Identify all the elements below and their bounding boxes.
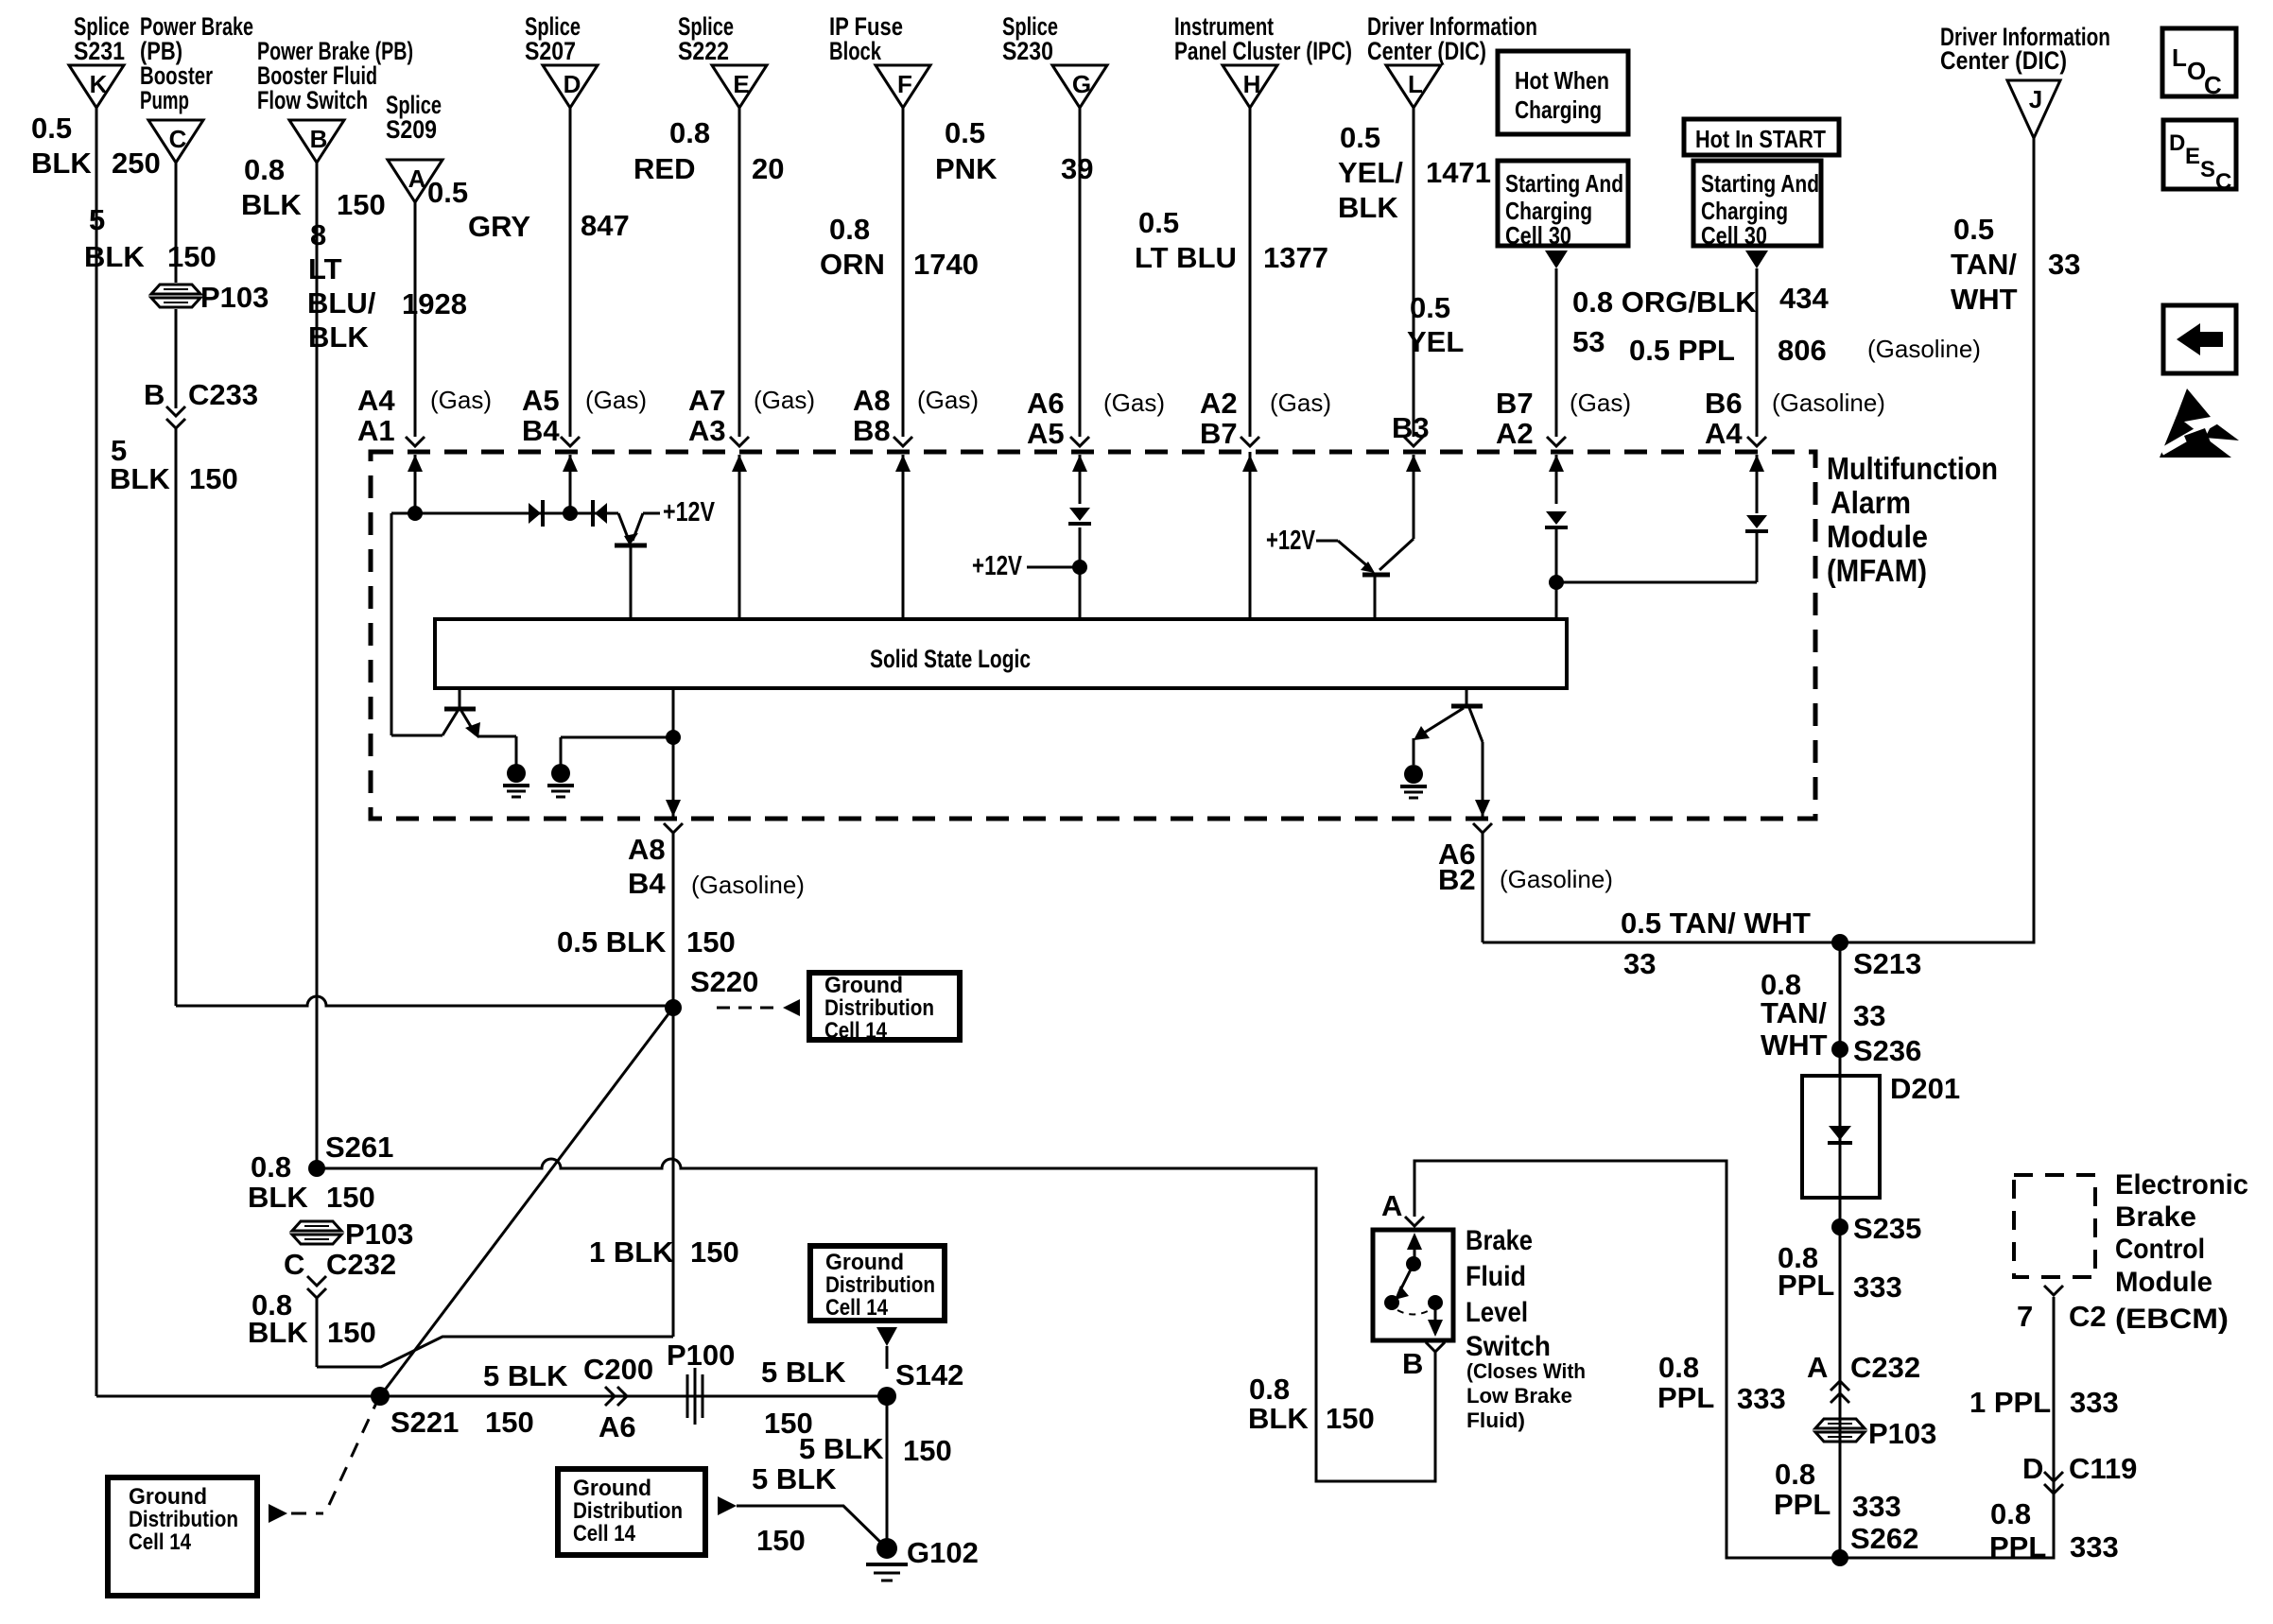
svg-text:150: 150 [1326,1402,1375,1435]
svg-text:TAN/: TAN/ [1761,996,1827,1029]
Solid State Logic label [870,645,1031,673]
transistor Q1 base lead [630,546,633,619]
Ground Distribution Cell 14 box (G102) [558,1469,705,1555]
transistor Q4 collector lead [1469,708,1483,742]
svg-text:BLK: BLK [1248,1402,1309,1435]
switch contact dot left [1384,1295,1399,1310]
svg-text:(Gasoline): (Gasoline) [1772,389,1885,417]
svg-text:5 BLK: 5 BLK [752,1462,837,1495]
svg-text:A6: A6 [599,1410,636,1443]
svg-text:(Gasoline): (Gasoline) [1500,865,1613,893]
svg-text:Fluid): Fluid) [1466,1408,1525,1432]
diode D201 symbol [1828,1126,1852,1143]
svg-text:150: 150 [686,925,736,959]
svg-text:0.8: 0.8 [244,153,285,186]
svg-text:Ground: Ground [573,1476,651,1501]
svg-text:LT BLU: LT BLU [1135,241,1237,274]
wire 0.5 YEL 53 [1555,268,1558,437]
switch dashed travel arc [1397,1310,1430,1315]
svg-text:C232: C232 [326,1248,396,1281]
svg-text:150: 150 [690,1235,739,1269]
label (Gasoline) A6/B2 [1500,865,1613,893]
svg-text:Center (DIC): Center (DIC) [1367,37,1486,65]
svg-text:A4: A4 [357,384,395,417]
splice S220 [665,999,682,1016]
label (Closes With Low Brake Fluid) [1466,1359,1586,1432]
svg-text:Center (DIC): Center (DIC) [1940,46,2067,75]
diode CR3 on wire G [1068,508,1091,524]
svg-text:BLK: BLK [248,1316,308,1349]
svg-text:5 BLK: 5 BLK [483,1359,568,1392]
label Electronic Brake Control Module (EBCM) [2115,1169,2248,1335]
transistor Q2 collector lead [1379,539,1414,570]
diode CR2 (pointing left) [593,500,607,527]
svg-text:0.5 BLK: 0.5 BLK [557,925,667,959]
transistor Q1 emitter arrow [618,513,643,545]
svg-text:7: 7 [2017,1300,2033,1333]
reference arrow out of G102 box [718,1496,737,1515]
svg-text:Brake: Brake [1466,1225,1533,1256]
label 0.8 BLK 150 (wire B) [241,153,386,221]
svg-text:150: 150 [167,240,217,273]
svg-text:Brake: Brake [2115,1201,2196,1233]
transistor Q3 collector lead [442,711,458,735]
+12V feed to wire G [972,551,1080,581]
switch arm diagonal [1395,1264,1414,1300]
svg-text:PNK: PNK [935,152,998,185]
svg-text:Switch: Switch [1466,1331,1551,1362]
label (Gasoline) A8/B4 [691,871,805,899]
wire Q3 emitter to ground [477,736,516,765]
svg-text:PPL: PPL [1774,1488,1831,1521]
wire C 5 BLK 150 upper [175,163,178,283]
svg-text:250: 250 [112,147,161,180]
wire logic output A8 [672,688,675,802]
transistor Q3 base lead [459,688,461,707]
label 0.5 PPL 806 [1629,334,1827,367]
module pin chevron at x=1142 [1070,437,1089,446]
svg-text:150: 150 [189,462,238,495]
svg-text:S236: S236 [1853,1034,1921,1067]
svg-text:B8: B8 [853,414,891,447]
svg-text:1471: 1471 [1426,156,1491,189]
svg-text:(Gas): (Gas) [1570,389,1631,417]
svg-text:B3: B3 [1392,411,1430,444]
label 1 PPL 333 [1969,1386,2119,1419]
label 0.8 PPL 333 (below C119) [1989,1497,2119,1564]
svg-text:B: B [1402,1347,1423,1380]
internal wire left drop [391,513,442,735]
svg-text:Level: Level [1466,1297,1528,1328]
label 0.8 BLK 150 (below S261) [248,1150,375,1214]
svg-text:B: B [310,125,328,153]
svg-text:150: 150 [326,1181,375,1214]
Hot In START box [1684,119,1839,155]
svg-text:B7: B7 [1200,417,1238,450]
Brake Fluid Level Switch box [1373,1230,1453,1340]
internal input arrow at x=782 [732,455,747,619]
svg-text:PPL: PPL [1989,1530,2046,1564]
label D201 [1890,1072,1960,1105]
label S262 [1850,1522,1918,1555]
svg-text:Distribution: Distribution [129,1507,238,1532]
svg-text:S262: S262 [1850,1522,1918,1555]
pin A8/B4 [628,833,666,900]
connector triangle L (Driver Information Center) [1367,12,1537,108]
label 0.8 RED 20 [633,116,784,185]
wire 5 BLK 150 from ground distribution [737,1506,887,1548]
svg-text:1 PPL: 1 PPL [1969,1386,2051,1419]
wire A 8 LT BLU/BLK 1928 [414,200,417,437]
svg-text:(MFAM): (MFAM) [1827,553,1927,588]
svg-text:5 BLK: 5 BLK [799,1432,884,1465]
label 0.5 GRY 847 [427,176,630,243]
svg-text:8: 8 [310,218,326,251]
svg-text:A5: A5 [1027,417,1065,450]
svg-text:+12V: +12V [663,497,716,527]
switch contact arm A [1407,1233,1422,1264]
module pin chevron at x=603 [561,437,580,446]
svg-text:C119: C119 [2069,1452,2137,1485]
svg-text:P103: P103 [200,281,269,314]
connector C232 pin C [284,1248,396,1298]
wire 0.8 ORG/BLK 434 [1756,268,1759,437]
svg-text:L: L [1408,70,1423,98]
svg-text:E: E [733,70,749,98]
svg-text:B4: B4 [522,414,560,447]
wire C 5 BLK 150 lower [175,428,178,1006]
wire brake switch pin A loop [1414,1161,2054,1558]
wire ground G2 to output [561,737,673,765]
svg-text:P100: P100 [667,1339,735,1372]
pin A6/A5 [1027,387,1065,450]
label G102 [907,1536,979,1569]
connector triangle F (IP Fuse Block) [829,12,930,108]
wire A8/B4 0.5 BLK 150 to S220 [672,833,675,1008]
svg-text:0.5: 0.5 [945,116,985,149]
label (Gasoline) wire 806 [1867,335,1981,363]
svg-text:0.5: 0.5 [1340,121,1380,154]
splice S261 [308,1160,325,1177]
svg-text:150: 150 [337,188,386,221]
label 5 BLK 150 (to G102) [752,1462,837,1557]
internal wire B7 to B6 [1556,581,1757,584]
svg-text:1377: 1377 [1263,241,1328,274]
connector triangle G (Splice S230) [1002,12,1107,108]
wire E 0.8 RED 20 [738,108,741,437]
label 0.5 YEL/BLK 1471 [1338,121,1491,224]
svg-text:PPL: PPL [1657,1381,1714,1414]
wire D 0.5 GRY 847 [569,108,572,437]
label 0.8 PPL 333 (below P103) [1774,1458,1901,1523]
wire B jog to 1 BLK wire [317,1337,673,1367]
wire L 0.5 YEL/BLK 1471 [1413,108,1415,437]
splice S142 [877,1387,896,1406]
ground rail 5 BLK 150 [96,1395,887,1398]
Hot When Charging box [1498,51,1628,134]
svg-text:S230: S230 [1002,37,1053,65]
svg-text:(Gas): (Gas) [754,386,815,414]
svg-text:Cell 14: Cell 14 [824,1018,888,1044]
label 1 BLK 150 [589,1235,739,1269]
label (Gas) A5 [585,386,647,414]
svg-text:A1: A1 [357,414,395,447]
ground G3 (internal) [1400,765,1427,798]
module pin chevron at x=955 [894,437,912,446]
pin B chevron (switch) [1402,1342,1445,1380]
connector triangle A (Splice S209) [386,91,442,202]
svg-text:333: 333 [2070,1386,2119,1419]
svg-text:5 BLK: 5 BLK [761,1356,846,1389]
wire 1 PPL 333 (EBCM) [2053,1297,2056,1475]
svg-text:Electronic: Electronic [2115,1169,2248,1201]
svg-text:BLK: BLK [308,320,369,354]
switch contact arm B [1428,1303,1443,1337]
svg-text:33: 33 [2048,248,2080,281]
splice S213 [1831,934,1848,951]
internal input arrow at x=603 [563,455,578,513]
splice S235 [1831,1218,1848,1235]
module pin chevron at x=439 [406,437,425,446]
MFAM name label [1827,451,1998,588]
svg-text:1928: 1928 [402,287,467,320]
ESD susceptibility symbol [2160,389,2239,458]
module pin chevron A8/B4 [664,823,683,833]
power feed arrow into wire 53 [1545,251,1568,268]
label S220 [690,965,758,998]
label Brake Fluid Level Switch [1466,1225,1551,1362]
svg-text:D201: D201 [1890,1072,1960,1105]
svg-text:K: K [90,70,108,98]
transistor Q4 emitter arrow [1414,708,1464,740]
svg-text:C232: C232 [1850,1351,1920,1384]
ground G102 [866,1538,908,1581]
pin A2/B7 [1200,387,1238,450]
connector C119 pin D [2022,1452,2137,1494]
node B7 junction [1549,575,1564,590]
transistor Q4 base bar [1451,704,1483,709]
switch contact dot right [1428,1295,1443,1310]
svg-text:(Gas): (Gas) [917,386,979,414]
svg-text:5: 5 [89,203,105,236]
Multifunction Alarm Module dashed outline [371,452,1815,819]
svg-text:YEL: YEL [1407,325,1464,358]
wire 0.8 TAN/WHT 33 [1839,942,1842,1556]
diagonal wire S220 to S221 [380,1008,673,1396]
label 0.8 ORG/BLK 434 [1572,282,1829,319]
svg-text:C: C [169,125,187,153]
svg-text:0.5 TAN/ WHT: 0.5 TAN/ WHT [1621,907,1811,940]
svg-text:S209: S209 [386,115,437,144]
svg-text:(EBCM): (EBCM) [2115,1304,2229,1335]
dashed reference to S221 [291,1401,377,1513]
ground G2 (internal) [547,764,574,797]
module pin chevron at x=1322 [1241,437,1259,446]
svg-text:0.8: 0.8 [1775,1458,1815,1491]
svg-text:A6: A6 [1027,387,1065,420]
internal input arrow at x=1495 [1406,455,1421,539]
connector C233 pin B [144,378,258,428]
wire B below C232 [316,1298,319,1367]
svg-text:G102: G102 [907,1536,979,1569]
svg-text:150: 150 [327,1316,376,1349]
svg-text:S222: S222 [678,37,729,65]
label (Gas) A6 [1103,389,1165,417]
transistor Q4 base lead [1466,688,1468,704]
svg-text:Pump: Pump [140,86,189,114]
svg-text:G: G [1072,70,1091,98]
svg-text:1 BLK: 1 BLK [589,1235,674,1269]
node A4 junction [408,506,423,521]
svg-text:B7: B7 [1496,387,1534,420]
label 5 BLK 150 (left segment) [483,1359,568,1439]
svg-text:(Gas): (Gas) [1103,389,1165,417]
reference arrow into S142 [876,1327,897,1369]
label 0.5 YEL 53 [1407,291,1605,358]
svg-text:TAN/: TAN/ [1951,248,2017,281]
pin B3 [1392,411,1430,444]
svg-text:GRY: GRY [468,210,530,243]
svg-text:20: 20 [752,152,784,185]
svg-text:333: 333 [2070,1530,2119,1564]
svg-text:B4: B4 [628,867,666,900]
label S221 [390,1406,459,1439]
node output junction A8 [666,730,681,745]
svg-text:Low Brake: Low Brake [1466,1384,1572,1408]
reference arrow out of S221 box [269,1504,287,1523]
module pin chevron at x=1495 [1404,437,1423,446]
svg-text:A: A [1381,1189,1402,1222]
internal bus wire (A4 row) [391,512,618,515]
node +12V junction on wire G [1072,560,1087,575]
connector triangle D (Splice S207) [525,12,598,108]
svg-text:S261: S261 [325,1131,393,1164]
diode CR4 on wire B7 [1545,511,1568,527]
wire logic output A6 [1482,742,1484,802]
label S235 [1853,1212,1921,1245]
label S142 [895,1358,963,1391]
svg-text:S220: S220 [690,965,758,998]
svg-text:847: 847 [581,209,630,242]
LOC reference box [2162,28,2236,99]
svg-text:0.8: 0.8 [1990,1497,2031,1530]
connector P103 on PPL wire [1815,1417,1936,1450]
svg-text:Solid State Logic: Solid State Logic [870,645,1031,673]
wire A6/B2 0.5 TAN/WHT to S213 [1482,833,1484,942]
svg-text:0.5: 0.5 [31,112,72,145]
Starting And Charging Cell 30 box (right) [1693,161,1821,250]
label (Gasoline) B6 [1772,389,1885,417]
svg-text:A8: A8 [853,384,891,417]
svg-text:A7: A7 [688,384,726,417]
svg-text:PPL: PPL [1778,1269,1834,1302]
label 5 BLK 150 lower [110,434,238,495]
label 5 BLK 150 upper [84,203,217,273]
connector P100 [667,1339,735,1425]
svg-text:YEL/: YEL/ [1338,156,1403,189]
splice S262 [1831,1549,1848,1566]
diode CR5 on wire B6 [1745,515,1768,531]
svg-text:0.5: 0.5 [427,176,468,209]
svg-text:S142: S142 [895,1358,963,1391]
svg-text:Flow Switch: Flow Switch [257,86,368,114]
wire S261 horizontal to brake switch [317,1159,1435,1481]
splice S221 [371,1387,390,1406]
svg-text:A2: A2 [1200,387,1238,420]
module pin chevron at x=1858 [1747,437,1766,446]
wire B6 drop [1756,529,1759,582]
svg-text:39: 39 [1061,152,1093,185]
Ground Distribution Cell 14 box (S142) [810,1246,945,1321]
svg-text:S213: S213 [1853,947,1921,980]
svg-text:BLK: BLK [110,462,170,495]
svg-text:L: L [2172,43,2187,72]
transistor Q2 base lead [1374,576,1377,619]
wire C horizontal to S220 [176,996,673,1006]
+12V stub Q2 [1266,526,1338,556]
svg-text:S231: S231 [74,37,125,65]
svg-text:(Gas): (Gas) [585,386,647,414]
svg-text:0.5: 0.5 [1138,206,1179,239]
internal input arrow at x=439 [408,455,423,513]
connector triangle B (Power Brake Booster Fluid Flow Switch) [257,37,413,163]
svg-text:S221: S221 [390,1406,459,1439]
svg-text:B6: B6 [1705,387,1743,420]
svg-text:1740: 1740 [913,248,979,281]
svg-text:(Closes With: (Closes With [1466,1359,1586,1383]
pin 7/C2 chevron [2017,1286,2107,1333]
svg-text:BLU/: BLU/ [307,286,376,320]
svg-text:D: D [564,70,581,98]
power feed arrow into wire 434 [1745,251,1768,268]
svg-text:F: F [897,70,912,98]
svg-text:B2: B2 [1438,863,1476,896]
svg-text:A8: A8 [628,833,666,866]
connector triangle K (Splice S231) [69,12,130,108]
svg-text:53: 53 [1572,325,1605,358]
splice S236 [1831,1041,1848,1058]
svg-text:C: C [2204,71,2222,99]
label S213 [1853,947,1921,980]
svg-text:WHT: WHT [1761,1028,1828,1062]
diode CR1 (pointing right) [529,500,543,527]
svg-text:S207: S207 [525,37,576,65]
module pin chevron A6/B2 [1473,823,1492,833]
label 0.5 PNK 39 [935,116,1093,185]
internal input arrow at x=1142 [1072,455,1087,504]
svg-text:BLK: BLK [248,1181,308,1214]
svg-text:Charging: Charging [1515,95,1602,124]
label 33 (horizontal) [1623,947,1656,980]
svg-text:333: 333 [1852,1490,1901,1523]
wire G to logic [1079,527,1082,619]
dashed reference to ground distribution [717,999,800,1016]
internal input arrow at x=1646 [1549,455,1564,504]
internal input arrow at x=955 [895,455,911,619]
svg-text:P103: P103 [1868,1417,1936,1450]
svg-text:+12V: +12V [972,551,1022,581]
transistor Q2 base bar [1362,573,1390,578]
label 0.5 BLK 150 (S220 wire) [557,925,736,959]
connector triangle C (Power Brake Booster Pump) [140,12,253,163]
diode D201 box [1802,1076,1880,1198]
wire F 0.8 ORN 1740 [902,108,905,437]
svg-text:333: 333 [1737,1382,1786,1415]
wire 1 BLK 150 (S220 down) [672,1008,675,1337]
label 0.8 PPL 333 (switch A wire) [1657,1351,1786,1415]
pin A8/B8 [853,384,891,447]
svg-text:P103: P103 [345,1218,413,1251]
